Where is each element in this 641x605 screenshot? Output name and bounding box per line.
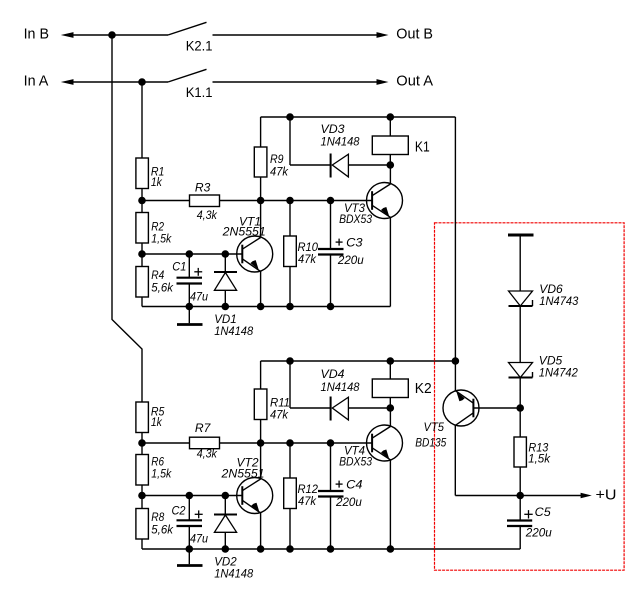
node VD1 top junction bbox=[222, 250, 230, 258]
svg-text:4,3k: 4,3k bbox=[197, 208, 218, 222]
wire Out B horizontal bbox=[213, 34, 379, 36]
node R11/VT2 collector junction bbox=[257, 439, 265, 447]
svg-text:1N4742: 1N4742 bbox=[539, 365, 578, 379]
node R12 top junction bbox=[286, 439, 294, 447]
svg-text:1N4148: 1N4148 bbox=[321, 135, 360, 149]
capacitor C1 bbox=[172, 254, 208, 307]
wire VT4 collector up bbox=[389, 408, 391, 427]
+U arrow terminal bbox=[581, 493, 592, 499]
node VD2 top junction bbox=[222, 492, 230, 500]
node R6/R8 junction bbox=[138, 492, 146, 500]
wire VT3 emitter down bbox=[389, 217, 391, 306]
svg-text:2N5551: 2N5551 bbox=[222, 225, 266, 239]
svg-text:4,3k: 4,3k bbox=[197, 447, 218, 461]
wire top rail 1 bbox=[261, 116, 456, 118]
transistor VT5 bbox=[415, 390, 479, 450]
resistor R1 bbox=[136, 158, 165, 189]
ground symbol block 1 bbox=[177, 307, 203, 325]
resistor R12 bbox=[284, 443, 319, 549]
wire from In A junction down to R1 bbox=[141, 82, 143, 158]
node junction on In A line bbox=[138, 78, 146, 86]
node K1 top on rail 1 bbox=[387, 113, 395, 121]
svg-text:5,6k: 5,6k bbox=[151, 523, 174, 537]
svg-text:K2.1: K2.1 bbox=[186, 38, 213, 54]
wire In B horizontal bbox=[72, 34, 168, 36]
resistor R13 bbox=[514, 437, 551, 496]
wire VD5 to R13 bbox=[519, 378, 521, 438]
resistor R5 bbox=[136, 402, 165, 433]
In A left arrow terminal bbox=[61, 79, 74, 85]
wire VT2 emitter down bbox=[260, 513, 262, 549]
relay coil K2 bbox=[372, 361, 431, 408]
node R2/R4 junction bbox=[138, 250, 146, 258]
wire bottom rail 1 bbox=[142, 306, 390, 308]
node K2 bottom / VD4 / VT4 collector junction bbox=[387, 404, 395, 412]
node C3 top junction bbox=[327, 197, 335, 205]
svg-text:C4: C4 bbox=[346, 477, 363, 491]
node VD2 bottom on rail 2 bbox=[222, 545, 230, 553]
diode VD3 bbox=[290, 122, 390, 178]
svg-text:5,6k: 5,6k bbox=[151, 281, 174, 295]
svg-text:R7: R7 bbox=[195, 421, 212, 435]
wire bottom rail 2 bbox=[142, 548, 520, 550]
wire VT3 collector up bbox=[389, 165, 391, 184]
node R10 top junction bbox=[286, 197, 294, 205]
svg-text:BD135: BD135 bbox=[415, 436, 446, 450]
capacitor C4 bbox=[318, 443, 363, 549]
svg-text:47u: 47u bbox=[190, 532, 208, 546]
zener diode VD5 bbox=[509, 354, 579, 380]
svg-text:220u: 220u bbox=[525, 526, 552, 540]
svg-text:K2: K2 bbox=[415, 380, 432, 397]
resistor R10 bbox=[284, 201, 319, 307]
svg-text:2N5551: 2N5551 bbox=[220, 467, 264, 481]
wire top rail 2 bbox=[261, 360, 456, 362]
svg-text:47k: 47k bbox=[270, 408, 289, 422]
capacitor C5 bbox=[507, 496, 552, 550]
svg-text:1N4148: 1N4148 bbox=[214, 566, 253, 580]
transistor VT3 bbox=[339, 183, 402, 227]
node VT5 base junction bbox=[516, 404, 524, 412]
resistor R4 bbox=[136, 267, 174, 298]
relay coil K1 bbox=[372, 117, 429, 165]
svg-text:47u: 47u bbox=[190, 290, 208, 304]
diode VD1 bbox=[214, 254, 253, 338]
svg-text:1,5k: 1,5k bbox=[151, 467, 172, 481]
wire base line 2 to VT2 bbox=[142, 495, 242, 497]
wire R4 top lead bbox=[141, 254, 143, 267]
svg-text:1k: 1k bbox=[151, 175, 163, 189]
node R10 bottom on rail 1 bbox=[286, 303, 294, 311]
ground symbol block 2 bbox=[177, 549, 203, 566]
svg-text:1k: 1k bbox=[151, 415, 163, 429]
node rail 2 to +U vertical bbox=[452, 357, 460, 365]
switch K1.1 arm bbox=[168, 69, 207, 82]
resistor R9 bbox=[254, 117, 289, 201]
wire In A horizontal bbox=[72, 81, 168, 83]
node R9/VT1 collector junction bbox=[257, 197, 265, 205]
svg-text:VD4: VD4 bbox=[321, 367, 345, 381]
node C3 bottom on rail 1 bbox=[327, 303, 335, 311]
node K1 bottom / VD3 / VT3 collector junction bbox=[387, 161, 395, 169]
switch K1.1 label bbox=[186, 84, 213, 100]
node R1/R2/R3 junction bbox=[138, 197, 146, 205]
diode VD2 bbox=[214, 496, 253, 581]
node R13/C5/+U junction bbox=[516, 492, 524, 500]
wire VD4 branch vertical bbox=[289, 361, 291, 408]
capacitor C2 bbox=[172, 496, 209, 550]
wire VD6 to VD5 bbox=[519, 306, 521, 363]
svg-text:Out A: Out A bbox=[396, 72, 433, 89]
resistor R6 bbox=[136, 454, 172, 485]
svg-text:1N4148: 1N4148 bbox=[214, 324, 253, 338]
wire R2 top lead bbox=[141, 201, 143, 213]
wire base line 1 to VT1 bbox=[142, 253, 242, 255]
wire R8 bottom lead bbox=[141, 539, 143, 549]
In B left arrow terminal bbox=[61, 32, 74, 38]
supply T-bar terminal bbox=[508, 234, 534, 237]
switch K2.1 label bbox=[186, 38, 213, 54]
svg-text:C1: C1 bbox=[172, 260, 186, 274]
node +U label bbox=[596, 486, 617, 503]
svg-text:47k: 47k bbox=[270, 164, 289, 178]
node R5/R6/R7 junction bbox=[138, 439, 146, 447]
node C2 top junction bbox=[186, 492, 194, 500]
svg-text:47k: 47k bbox=[298, 252, 317, 266]
svg-text:C3: C3 bbox=[346, 235, 363, 249]
svg-text:Out B: Out B bbox=[396, 25, 433, 42]
node junction on In B line bbox=[108, 31, 116, 39]
Out B arrow terminal bbox=[377, 32, 389, 38]
node VD4 branch on rail 2 bbox=[286, 357, 294, 365]
node C4 bottom on rail 2 bbox=[327, 545, 335, 553]
svg-text:VT5: VT5 bbox=[424, 420, 445, 434]
transistor VT4 bbox=[339, 425, 402, 469]
transistor VT1 bbox=[222, 215, 273, 272]
wire R7 line left bbox=[142, 442, 190, 444]
svg-text:C5: C5 bbox=[535, 505, 551, 519]
wire Out A horizontal bbox=[213, 81, 379, 83]
wire VT2 collector up bbox=[260, 443, 262, 479]
svg-text:BDX53: BDX53 bbox=[339, 455, 372, 469]
svg-text:+U: +U bbox=[596, 486, 617, 503]
wire VT5 collector down bbox=[454, 425, 456, 495]
node Out A label bbox=[396, 72, 433, 89]
node In B label bbox=[24, 25, 49, 42]
node C2 bottom on rail 2 bbox=[186, 545, 194, 553]
svg-text:1,5k: 1,5k bbox=[151, 232, 172, 246]
svg-text:220u: 220u bbox=[335, 495, 362, 509]
svg-text:220u: 220u bbox=[337, 253, 364, 267]
wire +U vertical from rail 1 to VT5 emitter bbox=[454, 117, 456, 391]
wire VT1 emitter down bbox=[260, 272, 262, 307]
wire VT1 collector up bbox=[260, 201, 262, 238]
switch K2.1 arm bbox=[168, 22, 207, 35]
node VT4 emitter on rail 2 bbox=[387, 545, 395, 553]
svg-text:47k: 47k bbox=[298, 494, 317, 508]
wire R4 bottom lead bbox=[141, 297, 143, 307]
wire R5 bottom lead bbox=[141, 433, 143, 444]
node C1 bottom on rail 1 bbox=[186, 303, 194, 311]
node C4 top junction bbox=[327, 439, 335, 447]
resistor R3 bbox=[190, 181, 220, 222]
node Out B label bbox=[396, 25, 433, 42]
wire VD3 branch vertical bbox=[289, 117, 291, 165]
node R12 bottom on rail 2 bbox=[286, 545, 294, 553]
svg-text:1N4148: 1N4148 bbox=[321, 380, 360, 394]
node VD1 bottom on rail 1 bbox=[222, 303, 230, 311]
svg-text:In B: In B bbox=[24, 25, 49, 42]
wire VT4 emitter down bbox=[389, 460, 391, 549]
wire from In B junction down left side bbox=[112, 35, 142, 402]
node K2 top on rail 2 bbox=[387, 357, 395, 365]
svg-text:R3: R3 bbox=[195, 181, 211, 195]
wire R2 bottom lead bbox=[141, 243, 143, 254]
wire R8 top lead bbox=[141, 496, 143, 509]
resistor R11 bbox=[254, 361, 290, 443]
resistor R2 bbox=[136, 213, 172, 246]
wire R3 line right to VT3 base bbox=[220, 200, 373, 202]
resistor R8 bbox=[136, 509, 174, 540]
wire R6 top lead bbox=[141, 443, 143, 455]
svg-text:In A: In A bbox=[24, 72, 49, 89]
diode VD4 bbox=[290, 367, 390, 421]
wire R7 line right to VT4 base bbox=[220, 442, 373, 444]
svg-text:1,5k: 1,5k bbox=[528, 452, 551, 466]
red boundary box bbox=[435, 223, 625, 570]
wire R6 bottom lead bbox=[141, 485, 143, 496]
wire R1 bottom lead bbox=[141, 189, 143, 201]
svg-text:BDX53: BDX53 bbox=[339, 212, 372, 226]
wire R3 line left bbox=[142, 200, 190, 202]
node In A label bbox=[24, 72, 49, 89]
wire T-bar to VD6 bbox=[519, 237, 521, 292]
wire +U output line bbox=[455, 495, 581, 497]
transistor VT2 bbox=[220, 456, 272, 514]
svg-text:K1.1: K1.1 bbox=[186, 84, 213, 100]
node VD3 branch on rail 1 bbox=[286, 113, 294, 121]
node VT2 emitter on rail 2 bbox=[257, 545, 265, 553]
wire VT5 base bbox=[473, 407, 520, 409]
capacitor C3 bbox=[318, 201, 364, 307]
node VT1 emitter on rail 1 bbox=[257, 303, 265, 311]
svg-text:1N4743: 1N4743 bbox=[539, 294, 578, 308]
node C1 top junction bbox=[186, 250, 194, 258]
zener diode VD6 bbox=[509, 282, 579, 308]
svg-text:K1: K1 bbox=[415, 138, 430, 155]
svg-text:C2: C2 bbox=[172, 503, 186, 517]
Out A arrow terminal bbox=[377, 79, 389, 85]
resistor R7 bbox=[190, 421, 220, 461]
